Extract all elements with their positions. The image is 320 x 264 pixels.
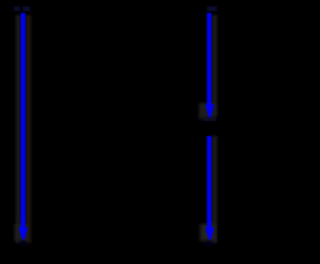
wire / current arrow I1 (left branch, pointing down) [14, 7, 31, 246]
wire / current arrow I2b (right branch lower segment, pointing down) [200, 136, 217, 246]
wire / current arrow I2a (right branch upper segment, arrowhead mid-height) [199, 7, 217, 122]
